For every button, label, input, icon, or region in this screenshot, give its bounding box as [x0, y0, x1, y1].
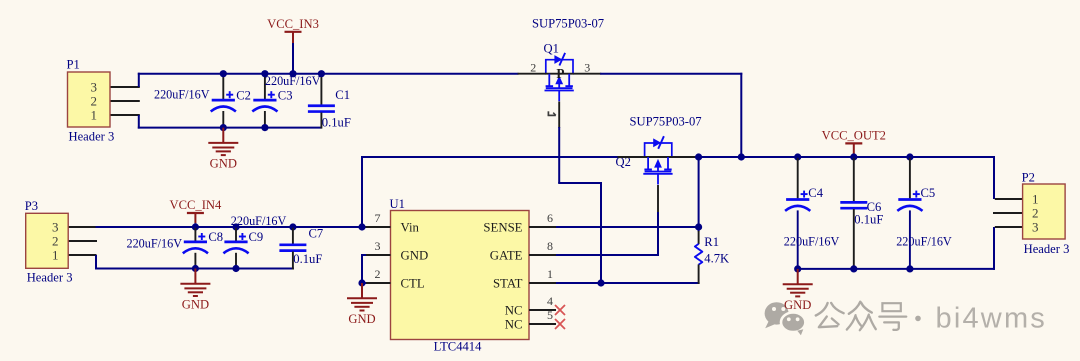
watermark glyph hao: [882, 303, 900, 311]
capacitor C4 top lead: [797, 158, 799, 199]
ic U1 pin 3 GND stub: [366, 254, 391, 256]
junction C3 bottom: [261, 124, 268, 131]
svg-text:3: 3: [91, 80, 98, 95]
transistor Q2 gate plates: [645, 171, 672, 173]
svg-text:LTC4414: LTC4414: [434, 340, 483, 354]
capacitor C9 bottom lead: [235, 253, 237, 268]
svg-text:C3: C3: [278, 88, 293, 102]
svg-text:2: 2: [530, 60, 536, 74]
capacitor C6 bottom lead: [853, 209, 855, 268]
connector P3 pin 2 stub (dangling): [67, 240, 97, 242]
ic U1 pin 8 GATE stub: [529, 254, 556, 256]
junction Q2 / R1 vertical: [695, 153, 702, 160]
junction VCC_IN3 / top rail: [289, 70, 296, 77]
transistor Q2 pin 3 stub: [673, 156, 699, 158]
junction C6 top: [850, 153, 857, 160]
transistor Q1 body diode triangle: [554, 55, 562, 64]
power GND3 ground symbol bars: [347, 297, 377, 299]
junction C8 top: [192, 223, 199, 230]
junction C9 bottom: [232, 265, 239, 272]
junction C9 top: [232, 223, 239, 230]
svg-text:Header 3: Header 3: [1024, 242, 1070, 256]
capacitor C4 bottom plate arc: [785, 206, 810, 211]
wire GATE net horizontal: [556, 254, 659, 256]
wire bottom rail of P3 section: [95, 268, 294, 270]
connector P2 body: [1023, 184, 1066, 239]
capacitor C8 top plate: [184, 240, 207, 243]
transistor Q2 arrow: [654, 159, 662, 168]
capacitor C9 bottom plate arc: [223, 248, 248, 253]
capacitor C2 bottom plate arc: [211, 107, 236, 112]
capacitor C1 plates: [308, 104, 335, 107]
ic U1 pin 7 Vin stub: [366, 226, 391, 228]
transistor Q2 body diode loop: [645, 143, 672, 157]
wire corner down to output rail: [740, 73, 742, 157]
svg-text:0.1uF: 0.1uF: [293, 252, 322, 266]
svg-text:1: 1: [52, 248, 59, 263]
junction C2 bottom: [220, 124, 227, 131]
power VCC_IN4 bar symbol: [187, 212, 204, 214]
junction C1 top: [318, 70, 325, 77]
wire top rail Q1 to corner: [600, 73, 742, 75]
power GND2 ground symbol stem: [194, 269, 196, 284]
transistor Q1 gate pin stub black: [558, 102, 560, 129]
connector P1 pin 2 stub (dangling): [110, 100, 140, 102]
connector P2 pin 2 stub (dangling): [993, 212, 1023, 214]
wire output rail from Q2: [698, 156, 996, 158]
junction CTL / GND jog: [358, 279, 365, 286]
capacitor C3 plus sign: [268, 94, 275, 96]
svg-text:GND: GND: [182, 298, 209, 312]
capacitor C4 bottom lead: [797, 210, 799, 268]
power GND4 ground symbol stem: [797, 269, 799, 284]
wire GATE net vertical to Q2 gate: [657, 212, 659, 256]
wire VCC_IN3 to rail: [292, 43, 294, 74]
capacitor C6 plates: [840, 201, 867, 204]
svg-text:2: 2: [52, 234, 59, 249]
transistor Q2 gate pin stub: [657, 174, 659, 185]
transistor Q1 left contact: [548, 74, 550, 86]
power VCC_IN3 stem: [292, 32, 294, 43]
capacitor C7 top lead: [292, 228, 294, 244]
capacitor C2 top plate: [212, 99, 235, 102]
no-ERC cross on pin 4: [555, 305, 565, 315]
capacitor C7 bottom lead: [292, 252, 294, 270]
transistor Q2 left contact: [647, 157, 649, 169]
power VCC_OUT2 stem: [853, 143, 855, 153]
svg-text:3: 3: [584, 60, 590, 74]
wire P1 pin3 to top rail vertical: [138, 73, 140, 87]
power VCC_IN3 bar symbol: [285, 31, 302, 33]
svg-text:C5: C5: [921, 186, 936, 200]
junction Vin / pin7: [358, 223, 365, 230]
wire Vin vertical to Q2 line: [361, 156, 363, 228]
power GND1 ground symbol bars: [208, 142, 238, 144]
connector P3 pin 1 stub: [67, 254, 96, 256]
ic U1 pin 6 SENSE stub: [529, 226, 556, 228]
transistor Q1 gate pin 1 number (rotated): [548, 114, 556, 116]
transistor Q2 right contact: [667, 157, 669, 169]
svg-text:2: 2: [1032, 206, 1039, 221]
svg-text:0.1uF: 0.1uF: [322, 115, 351, 129]
watermark wechat icon big bubble: [765, 302, 789, 324]
svg-text:1: 1: [547, 267, 553, 281]
svg-text:220uF/16V: 220uF/16V: [784, 235, 840, 249]
svg-text:VCC_OUT2: VCC_OUT2: [822, 129, 886, 143]
svg-text:3: 3: [375, 239, 381, 253]
svg-text:3: 3: [52, 220, 59, 235]
watermark glyph gong: [816, 303, 828, 316]
svg-text:220uF/16V: 220uF/16V: [896, 235, 952, 249]
svg-text:6: 6: [547, 211, 553, 225]
junction C3 top: [261, 70, 268, 77]
transistor Q1 channel line: [545, 73, 574, 75]
transistor Q2 body diode triangle: [653, 138, 661, 147]
svg-text:P2: P2: [1022, 170, 1035, 184]
capacitor C2 top lead: [222, 75, 224, 100]
wire output bottom rail: [797, 268, 995, 270]
wire P2 branch vertical top: [993, 156, 995, 199]
junction C2 top: [220, 70, 227, 77]
junction C5 bottom: [906, 265, 913, 272]
power VCC_OUT2 bar symbol: [845, 142, 862, 144]
svg-text:VCC_IN4: VCC_IN4: [170, 198, 222, 212]
svg-text:VCC_IN3: VCC_IN3: [267, 17, 319, 31]
svg-text:STAT: STAT: [493, 277, 523, 291]
capacitor C2 bottom lead: [222, 111, 224, 127]
junction C4 bottom: [794, 265, 801, 272]
capacitor C7 plates: [279, 243, 306, 246]
power GND4 ground symbol bars: [783, 283, 813, 285]
junction STAT / Q1 gate: [597, 279, 604, 286]
junction SENSE / R1 vertical: [695, 223, 702, 230]
connector P1 pin 1 stub: [110, 114, 140, 116]
power GND3 ground symbol stem: [361, 283, 363, 298]
ic U1 pin 5 NC stub: [529, 323, 556, 325]
capacitor C9 plus sign: [239, 236, 246, 238]
power GND2 ground symbol bars: [180, 283, 210, 285]
svg-text:R1: R1: [704, 235, 719, 249]
svg-text:4: 4: [547, 294, 553, 308]
svg-text:C8: C8: [208, 230, 223, 244]
resistor R1 top pin: [698, 231, 700, 244]
wire Q2 line left (Vin to Q2): [362, 156, 619, 158]
transistor Q2 pin 2 stub: [618, 156, 646, 158]
connector P2 pin 3 stub: [995, 226, 1023, 228]
wire VCC_OUT2 to rail: [853, 154, 855, 158]
junction C4 top: [794, 153, 801, 160]
svg-text:C2: C2: [236, 88, 251, 102]
ic U1 pin 4 NC stub: [529, 309, 556, 311]
transistor Q2 channel line: [644, 156, 673, 158]
junction C8 bottom: [192, 265, 199, 272]
ic U1 pin 1 STAT stub: [529, 282, 556, 284]
svg-text:GND: GND: [348, 312, 375, 326]
svg-text:Header 3: Header 3: [69, 130, 115, 144]
capacitor C1 top lead: [320, 75, 322, 106]
junction C7 top: [289, 223, 296, 230]
svg-text:bi4wms: bi4wms: [936, 303, 1048, 335]
watermark wechat icon small bubble: [781, 313, 805, 333]
capacitor C3 bottom lead: [264, 111, 266, 127]
junction C5 top: [906, 153, 913, 160]
wire top input rail (net VCC_IN3): [138, 73, 519, 75]
svg-text:P3: P3: [25, 199, 38, 213]
svg-text:P: P: [556, 66, 564, 81]
transistor Q1 pin 3 stub: [573, 73, 601, 75]
svg-text:CTL: CTL: [401, 277, 425, 291]
capacitor C5 bottom lead: [909, 210, 911, 268]
wire P2 branch vertical bottom: [993, 227, 995, 270]
svg-text:NC: NC: [505, 304, 523, 318]
watermark middle dot: [915, 316, 921, 322]
svg-text:1: 1: [1032, 192, 1039, 207]
svg-text:220uF/16V: 220uF/16V: [126, 237, 182, 251]
svg-text:Vin: Vin: [401, 221, 420, 235]
no-ERC cross on pin 5: [555, 319, 565, 329]
svg-text:NC: NC: [505, 318, 523, 332]
wire R1 top: [698, 158, 700, 232]
svg-text:SUP75P03-07: SUP75P03-07: [630, 115, 702, 129]
capacitor C3 top plate: [253, 99, 276, 102]
wire bottom rail of input section: [138, 127, 322, 129]
transistor Q2 gate pin stub black: [657, 185, 659, 212]
svg-text:GND: GND: [210, 157, 237, 171]
capacitor C5 top lead: [909, 158, 911, 199]
svg-text:4.7K: 4.7K: [704, 252, 729, 266]
svg-text:GND: GND: [784, 298, 811, 312]
svg-text:2: 2: [91, 94, 98, 109]
ic U1 pin 2 CTL stub: [366, 282, 391, 284]
svg-text:P1: P1: [67, 58, 80, 72]
svg-text:5: 5: [547, 308, 553, 322]
capacitor C5 plus sign: [913, 193, 920, 195]
svg-text:U1: U1: [390, 197, 405, 211]
svg-text:2: 2: [375, 267, 381, 281]
svg-text:C7: C7: [309, 226, 324, 240]
svg-text:220uF/16V: 220uF/16V: [154, 87, 210, 101]
svg-text:SUP75P03-07: SUP75P03-07: [532, 17, 604, 31]
capacitor C8 plus sign: [198, 236, 205, 238]
junction output rail / Q1 branch: [738, 153, 745, 160]
svg-text:220uF/16V: 220uF/16V: [265, 74, 321, 88]
resistor R1 zigzag: [695, 244, 702, 265]
wire Q1 gate jog vertical: [600, 182, 602, 283]
svg-text:0.1uF: 0.1uF: [854, 212, 883, 226]
svg-text:GATE: GATE: [490, 249, 523, 263]
capacitor C3 bottom plate arc: [252, 107, 277, 112]
power VCC_IN4 stem: [194, 213, 196, 223]
wire STAT net horizontal: [556, 282, 700, 284]
capacitor C9 top plate: [224, 240, 247, 243]
svg-text:SENSE: SENSE: [483, 221, 522, 235]
wire P1 pin1 to bottom rail vertical: [138, 115, 140, 129]
connector P3 body: [26, 213, 68, 268]
capacitor C5 bottom plate arc: [897, 206, 922, 211]
transistor Q1 pin 2 stub: [518, 73, 546, 75]
wire GND pin jog: [362, 255, 366, 283]
power GND1 ground symbol stem: [222, 128, 224, 143]
wire SENSE net: [556, 226, 699, 228]
transistor Q1 body diode cathode bar: [559, 53, 565, 66]
junction C6 bottom: [850, 265, 857, 272]
svg-text:220uF/16V: 220uF/16V: [231, 214, 287, 228]
svg-text:7: 7: [375, 211, 381, 225]
transistor Q1 gate plates: [546, 87, 573, 89]
svg-text:1: 1: [91, 108, 98, 123]
svg-text:Header 3: Header 3: [27, 271, 73, 285]
wire Q1 gate jog horizontal: [558, 182, 601, 184]
capacitor C2 plus sign: [226, 94, 233, 96]
capacitor C6 top lead: [853, 158, 855, 202]
wire Vin rail (net VCC_IN4): [96, 226, 367, 228]
connector P2 pin 1 stub: [995, 198, 1023, 200]
svg-text:C9: C9: [249, 230, 264, 244]
wire Q1 gate vertical: [558, 127, 560, 183]
transistor Q1 body diode loop: [546, 60, 573, 74]
svg-text:C1: C1: [335, 88, 350, 102]
capacitor C5 top plate: [898, 198, 921, 201]
transistor Q1 arrow: [555, 76, 563, 85]
svg-text:Q1: Q1: [544, 42, 559, 56]
ic U1 body LTC4414: [391, 211, 530, 340]
transistor Q1 gate pin stub: [558, 91, 560, 102]
svg-text:3: 3: [1032, 220, 1039, 235]
capacitor C4 top plate: [786, 198, 809, 201]
svg-text:8: 8: [547, 239, 553, 253]
transistor Q1 right contact: [568, 74, 570, 86]
svg-text:GND: GND: [401, 249, 429, 263]
connector P1 pin 3 stub: [110, 86, 140, 88]
wire VCC_IN4 to rail: [194, 223, 196, 227]
capacitor C9 top lead: [235, 228, 237, 241]
transistor Q2 body diode cathode bar: [658, 136, 664, 149]
capacitor C1 bottom lead: [320, 113, 322, 129]
resistor R1 bottom pin: [698, 264, 700, 284]
capacitor C8 top lead: [194, 228, 196, 241]
capacitor C3 top lead: [264, 75, 266, 100]
watermark glyph zhong: [849, 302, 860, 314]
capacitor C4 plus sign: [801, 193, 808, 195]
connector P1 body: [68, 72, 111, 127]
wire P3 pin1 down corner: [95, 255, 97, 270]
capacitor C8 bottom lead: [194, 253, 196, 268]
connector P3 pin 3 stub: [67, 226, 96, 228]
svg-text:C4: C4: [808, 186, 823, 200]
capacitor C8 bottom plate arc: [183, 248, 208, 253]
